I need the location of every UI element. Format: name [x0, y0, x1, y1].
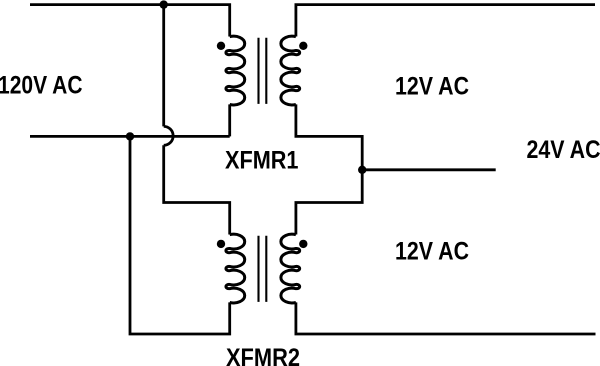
- junction neutral: [126, 132, 134, 140]
- svg-text:12V AC: 12V AC: [395, 237, 469, 265]
- junction top: [160, 0, 168, 8]
- phase dot XFMR2 primary: [217, 240, 225, 248]
- svg-text:120V AC: 120V AC: [0, 71, 83, 99]
- XFMR2 core: [257, 236, 259, 302]
- svg-text:XFMR1: XFMR1: [225, 146, 299, 174]
- wire XFMR1 primary bottom lead: [228, 104, 231, 136]
- wire XFMR1 secondary top to top-right output: [296, 5, 595, 37]
- wire top-left 120V hot: [30, 5, 230, 37]
- transformer XFMR1 primary winding: [226, 36, 245, 105]
- wire 120V neutral (second line): [30, 135, 230, 138]
- svg-text:24V AC: 24V AC: [527, 136, 600, 164]
- transformer XFMR2 secondary winding: [281, 234, 300, 303]
- svg-text:12V AC: 12V AC: [395, 72, 469, 100]
- wire from top junction down to hop: [162, 5, 165, 127]
- wire continuing to XFMR2 primary top: [164, 145, 230, 234]
- wire hop over neutral: [164, 126, 173, 145]
- junction center tap: [358, 166, 366, 174]
- phase dot XFMR1 secondary: [299, 42, 307, 50]
- phase dot XFMR2 secondary: [299, 240, 307, 248]
- phase dot XFMR1 primary: [217, 42, 225, 50]
- XFMR1 core: [257, 38, 259, 104]
- svg-text:XFMR2: XFMR2: [226, 344, 300, 366]
- wire XFMR1 secondary bottom to XFMR2 secondary top series link: [296, 104, 362, 234]
- transformer XFMR1 secondary winding: [281, 36, 300, 105]
- wire XFMR2 secondary bottom to bottom-right output: [296, 302, 596, 334]
- wire from neutral junction down to XFMR2 primary bottom: [130, 136, 230, 334]
- transformer XFMR2 primary winding: [226, 234, 245, 303]
- wire 24V center tap output: [362, 168, 496, 171]
